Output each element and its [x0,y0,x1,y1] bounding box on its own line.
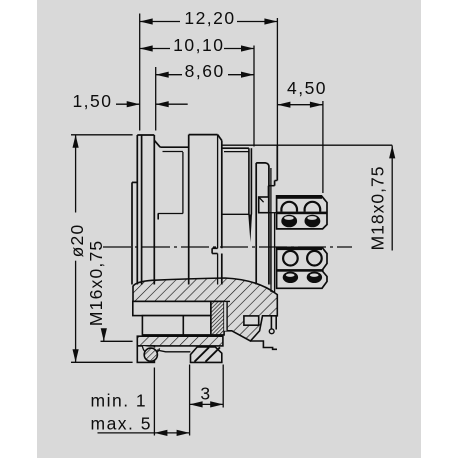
extension lines top [139,14,141,131]
rear lower column [270,316,272,330]
screw pocket [143,346,160,354]
arrow dim 8,60 left [156,72,169,78]
M16 barrel top [160,146,189,148]
gap verticals [270,213,272,292]
flange foot [137,346,154,363]
dim 10,10 [140,48,170,50]
dim 8,60 [156,74,182,76]
svg-text:1,50: 1,50 [72,91,112,111]
M16 thread runout step [158,213,183,215]
arrow dim 1,50 right [156,101,169,107]
solder cups row 2 [281,215,297,228]
hatched shell band and rear mass [133,278,277,341]
svg-text:10,10: 10,10 [173,35,224,55]
front tube [131,182,133,284]
M18 leader [391,145,393,250]
arrow dim 12,20 right [264,18,277,24]
chamfer box [259,197,269,213]
svg-text:ø20: ø20 [67,224,87,258]
M16 leader [103,329,105,341]
barrel lower edge line [222,213,249,215]
svg-text:8,60: 8,60 [185,61,225,81]
arrow M18 leader up [389,145,395,158]
insulator row 2 [142,316,211,335]
insulator row 1 [133,301,211,315]
arrow dia20 up [73,135,79,148]
lower block [277,247,327,288]
upper block [277,196,327,229]
rear disc [255,163,257,285]
bottom ext lines [153,368,155,436]
arrow dim 3 left [190,401,203,407]
svg-text:4,50: 4,50 [287,78,327,98]
dim 4,50 [277,104,323,106]
front flange (ø20) [136,135,138,285]
M18 thread front face [276,145,278,180]
hex nut block [188,135,190,285]
svg-text:12,20: 12,20 [184,8,235,28]
dim 12,20 [140,21,180,23]
arrow dim 8,60 right [241,72,254,78]
rear nose piece (3 mm) [191,347,222,363]
washer front faces [248,148,250,214]
arrow dia20 down [73,349,79,362]
arrow dim 4,50 right [310,102,323,108]
svg-text:min. 1: min. 1 [91,391,148,411]
contact hole (white box) in section [244,316,259,325]
solder bucket section (dense hatch) [211,301,224,335]
svg-text:max. 5: max. 5 [91,414,153,434]
thin shell wall strip [137,336,223,346]
arrow dim 10,10 left [140,45,153,51]
solder lugs top row [281,202,297,212]
arrow dim 10,10 right [241,45,254,51]
arrow min/max left [154,430,167,436]
arrow dim 4,50 left [277,102,290,108]
arrow dim 12,20 left [140,18,153,24]
arrow dim 1,50 left [127,101,140,107]
white relief column right of bucket [224,301,227,330]
arrow M16 leader down [101,328,107,341]
arrow dim 3 right [210,401,223,407]
dia 20 [75,135,77,213]
arrows [73,18,396,436]
dim 3 [190,403,224,405]
svg-text:M18x0,75: M18x0,75 [368,166,388,251]
centerline [103,246,352,248]
dim 1,50 tails [116,103,140,105]
min/max dim [98,432,190,434]
bottom right profile steps [250,341,277,349]
arrow min/max right [177,430,190,436]
chamfer to barrel [154,140,160,147]
screw (sectioned) [144,348,157,361]
svg-text:3: 3 [200,384,211,404]
svg-text:M16x0,75: M16x0,75 [86,240,106,326]
rear barrel top [222,147,249,149]
